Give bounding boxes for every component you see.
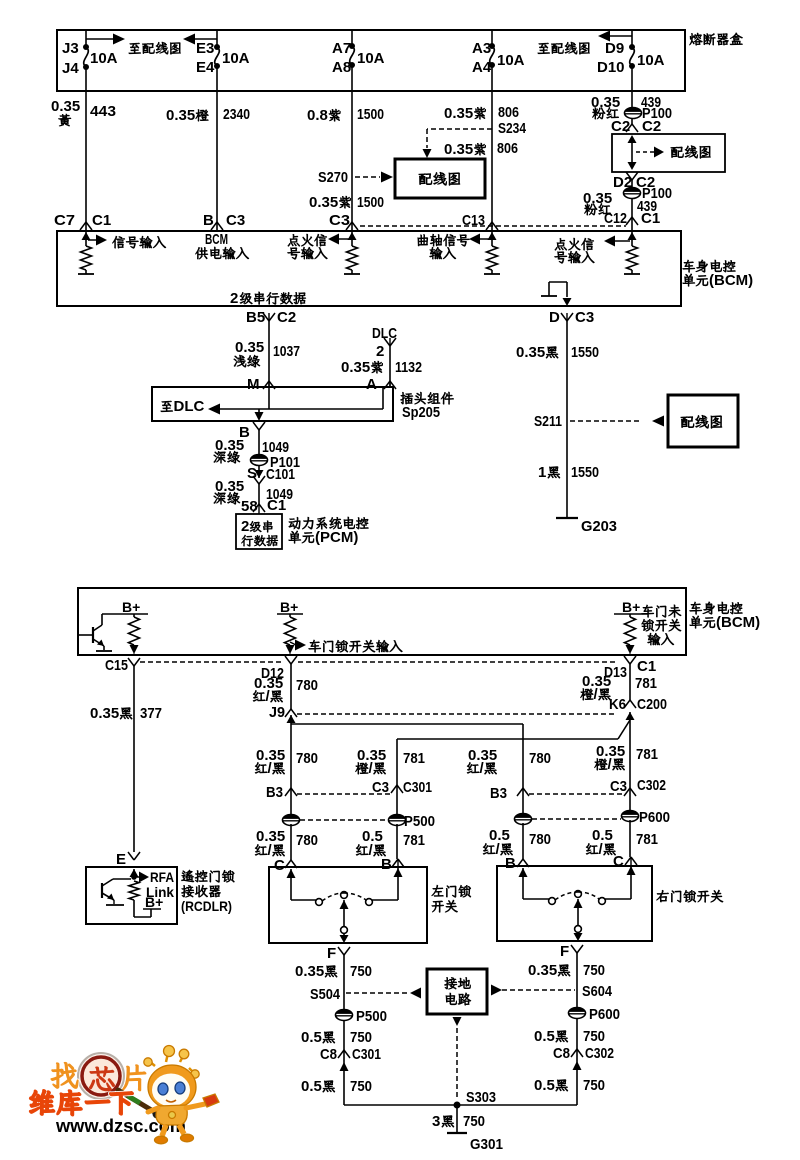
label 车身电控单元(BCM) lower (690, 602, 702, 614)
label 车门未锁开关输入 (642, 605, 654, 617)
svg-text:0.8: 0.8 (307, 107, 328, 124)
wire 377 black (C15 to RCDLR E) (133, 666, 135, 852)
svg-text:1: 1 (538, 464, 546, 481)
svg-text:0.35: 0.35 (516, 344, 545, 361)
svg-text:C3: C3 (610, 778, 627, 795)
wire 1500 purple 0.8 (A8 to BCM C3) (351, 91, 353, 219)
ground G301 (447, 1132, 467, 1134)
svg-text:0.5: 0.5 (301, 1029, 322, 1046)
svg-text:0.35: 0.35 (444, 105, 473, 122)
svg-text:781: 781 (636, 746, 658, 763)
svg-text:C3: C3 (226, 212, 245, 229)
svg-text:F: F (560, 943, 569, 960)
svg-text:A8: A8 (332, 59, 351, 76)
svg-text:(BCM): (BCM) (709, 272, 753, 289)
svg-text:B3: B3 (490, 785, 507, 802)
splice P500 (ground side) (336, 1010, 353, 1021)
svg-text:1132: 1132 (395, 359, 422, 376)
svg-text:750: 750 (583, 1077, 605, 1094)
svg-text:B: B (505, 855, 516, 872)
svg-text:0.35: 0.35 (309, 194, 338, 211)
svg-text:C101: C101 (266, 466, 295, 483)
svg-text:377: 377 (140, 705, 162, 722)
svg-text:P500: P500 (404, 813, 435, 830)
BCM pin arrow + label 点火信号输入 (348, 232, 357, 240)
wire 750 black (left door F to S303) (343, 955, 345, 1105)
svg-text:C7: C7 (54, 212, 75, 229)
fuse J3/J4 10A (85, 30, 87, 47)
svg-text:A4: A4 (472, 59, 492, 76)
svg-text:C2: C2 (642, 118, 661, 135)
svg-text:781: 781 (635, 675, 657, 692)
ground G203 (556, 517, 578, 519)
PCM box 2级串行数据 (236, 514, 282, 549)
svg-text:806: 806 (497, 140, 518, 157)
svg-text:C8: C8 (320, 1046, 337, 1063)
power rail B+ (right) (614, 613, 648, 615)
svg-text:C2: C2 (277, 309, 296, 326)
svg-text:C1: C1 (637, 658, 656, 675)
svg-text:C2: C2 (611, 118, 630, 135)
svg-text:2340: 2340 (223, 106, 250, 123)
label 车身电控单元(BCM) (683, 260, 695, 272)
connector S/C101 (255, 470, 264, 478)
svg-text:D: D (549, 309, 560, 326)
svg-text:S303: S303 (466, 1089, 496, 1106)
BCM pin arrow + label 点火信号输入 (right) (628, 232, 637, 240)
svg-text:B: B (203, 212, 214, 229)
svg-text:(PCM): (PCM) (315, 529, 358, 546)
wire 781 orange/black (D13/C1 to K6/C200) (629, 664, 631, 700)
splice P100 (lower) (631, 188, 633, 212)
svg-text:C301: C301 (403, 779, 432, 796)
svg-text:781: 781 (403, 832, 425, 849)
right door switch arm (574, 899, 583, 908)
splice P101 (251, 455, 268, 466)
BCM pin arrow + label 信号输入 (82, 232, 91, 240)
svg-text:806: 806 (498, 104, 519, 121)
junction S303 (344, 1104, 577, 1106)
svg-text:(BCM): (BCM) (716, 614, 760, 631)
svg-text:3: 3 (432, 1113, 440, 1130)
svg-text:1500: 1500 (357, 194, 384, 211)
svg-text:M: M (247, 376, 260, 393)
pin D13/C1 (624, 656, 630, 664)
svg-text:750: 750 (350, 1078, 372, 1095)
svg-text:10A: 10A (637, 52, 665, 69)
resistor to D13 (629, 614, 631, 617)
label 动力系统电控单元(PCM) (289, 517, 300, 529)
svg-text:E: E (116, 851, 126, 868)
svg-text:0.5: 0.5 (301, 1078, 322, 1095)
splice P500 (wire 781) (389, 815, 406, 826)
dashed splice link left pair (300, 819, 388, 821)
svg-text:B3: B3 (266, 784, 283, 801)
label 遥控门锁接收器(RCDLR) (181, 870, 194, 882)
svg-text:1500: 1500 (357, 106, 384, 123)
svg-text:F: F (327, 945, 336, 962)
svg-text:750: 750 (583, 1028, 605, 1045)
dashed splice link right pair (532, 818, 621, 820)
splice P100 (upper) (625, 108, 642, 119)
svg-text:10A: 10A (357, 50, 385, 67)
branch bus wires (J9/K6 to door lock columns) (291, 723, 523, 725)
splice (left door lock) (283, 815, 300, 826)
splice S604 dashed from ground circuit box (491, 985, 502, 996)
BCM internal resistor (ignition input B) (627, 246, 638, 270)
resistor + arrow 车门锁开关输入 (289, 614, 291, 617)
left door switch arm (340, 900, 349, 909)
svg-text:B5: B5 (246, 309, 265, 326)
arrow 至配线图 (left) (86, 38, 113, 40)
svg-text:0.35: 0.35 (341, 359, 370, 376)
pin D12 (285, 656, 291, 664)
arrow 至配线图 (right) (538, 43, 550, 54)
dashed arrow down from ground circuit box (453, 1017, 462, 1026)
wire 2340 orange (E4 to BCM B/C3) (216, 91, 218, 219)
svg-text:750: 750 (350, 963, 372, 980)
svg-text:A7: A7 (332, 40, 351, 57)
dashed connector grouping line C15-D13 (140, 661, 284, 663)
svg-text:B: B (381, 856, 392, 873)
svg-text:J9: J9 (269, 704, 285, 721)
svg-text:E3: E3 (196, 40, 214, 57)
fuse D9/D10 10A (631, 30, 633, 47)
wire 780 red/black (D12 to J9) (290, 664, 292, 709)
svg-text:10A: 10A (90, 50, 118, 67)
svg-text:C3: C3 (575, 309, 594, 326)
BCM body control module box (57, 231, 681, 306)
svg-text:Link: Link (146, 884, 174, 900)
svg-text:0.35: 0.35 (235, 339, 264, 356)
svg-text:A3: A3 (472, 40, 491, 57)
label 左门锁开关 (432, 885, 444, 896)
dashed connector grouping line at BCM top (360, 225, 626, 227)
svg-text:0.35: 0.35 (166, 107, 195, 124)
svg-text:C: C (613, 853, 624, 870)
svg-text:G301: G301 (470, 1136, 503, 1153)
svg-text:BCM: BCM (205, 231, 228, 248)
right door switch contacts (519, 868, 528, 877)
svg-text:1550: 1550 (571, 344, 599, 361)
svg-text:781: 781 (636, 831, 658, 848)
svg-text:S211: S211 (534, 413, 562, 430)
svg-text:C302: C302 (637, 777, 666, 794)
svg-text:10A: 10A (222, 50, 250, 67)
svg-text:2: 2 (376, 343, 384, 360)
svg-text:2: 2 (230, 290, 238, 307)
svg-text:C: C (274, 857, 285, 874)
RCDLR transistor Q2 (101, 883, 103, 898)
svg-text:P500: P500 (356, 1008, 387, 1025)
svg-text:C12: C12 (604, 210, 627, 227)
pass-through box to wiring diagram 配线图 (right) (612, 134, 725, 172)
svg-text:C302: C302 (585, 1045, 614, 1062)
svg-text:C3: C3 (329, 212, 350, 229)
splice (right door lock) (515, 814, 532, 825)
BCM pin arrow + label 曲轴信号输入 (488, 232, 497, 240)
svg-text:0.35: 0.35 (51, 98, 80, 115)
svg-text:B+: B+ (280, 599, 298, 615)
left door switch contacts (287, 869, 296, 878)
splice P600 (wire 781 right) (622, 811, 639, 822)
svg-text:K6: K6 (609, 696, 626, 713)
svg-text:J3: J3 (62, 40, 79, 57)
svg-text:S234: S234 (498, 120, 527, 137)
BCM internal resistor (crank input) (487, 246, 498, 270)
svg-text:P600: P600 (589, 1006, 620, 1023)
svg-text:S604: S604 (582, 983, 613, 1000)
wire 806 purple (A4 to BCM C13) (491, 91, 493, 219)
svg-text:750: 750 (463, 1113, 485, 1130)
svg-text:C15: C15 (105, 657, 128, 674)
dashed connector grouping line J9-C200 (297, 713, 617, 715)
fuse A3/A4 10A (491, 30, 493, 46)
power rail B+ (left) (102, 613, 148, 615)
svg-text:C8: C8 (553, 1045, 570, 1062)
fuse A7/A8 10A (351, 30, 353, 46)
svg-text:D10: D10 (597, 59, 625, 76)
wiring diagram box 配线图 (middle right) (668, 395, 738, 447)
power rail B+ (middle) (277, 613, 303, 615)
svg-text:1037: 1037 (273, 343, 300, 360)
svg-text:C1: C1 (92, 212, 111, 229)
svg-text:C200: C200 (637, 696, 667, 713)
svg-text:B+: B+ (622, 599, 640, 615)
ground circuit box 接地电路 (427, 969, 487, 1014)
svg-text:S504: S504 (310, 986, 341, 1003)
splice pack 插头组件 Sp205 box (152, 387, 393, 421)
svg-text:780: 780 (529, 750, 551, 767)
svg-text:0.35: 0.35 (444, 141, 473, 158)
svg-text:B+: B+ (122, 599, 140, 615)
RCDLR internals (130, 869, 139, 877)
svg-text:0.5: 0.5 (534, 1028, 555, 1045)
BCM internal resistor (signal input) (81, 246, 92, 270)
internal bus with 至DLC arrow (161, 401, 173, 412)
svg-text:0.35: 0.35 (528, 962, 557, 979)
svg-text:J4: J4 (62, 60, 79, 77)
fuse E3/E4 10A (216, 30, 218, 47)
svg-text:S270: S270 (318, 169, 348, 186)
watermark logo 找芯片/维库一下/www.dzsc.com with mascot (30, 1046, 219, 1144)
svg-text:RFA: RFA (150, 869, 174, 885)
svg-text:G203: G203 (581, 518, 617, 535)
svg-text:750: 750 (350, 1029, 372, 1046)
svg-text:443: 443 (90, 103, 116, 120)
left door lock switch box (269, 867, 427, 943)
svg-text:780: 780 (296, 750, 318, 767)
svg-text:A: A (366, 376, 377, 393)
arrow into K6 and branch bus (626, 712, 635, 720)
svg-text:58: 58 (241, 498, 258, 515)
svg-text:0.5: 0.5 (534, 1077, 555, 1094)
svg-text:2: 2 (241, 518, 249, 535)
wiring diagram box 配线图 (upper) (395, 159, 485, 198)
fuse box 熔断器盒 (57, 30, 685, 91)
svg-text:750: 750 (583, 962, 605, 979)
svg-text:(RCDLR): (RCDLR) (181, 898, 232, 914)
svg-text:D9: D9 (605, 40, 624, 57)
svg-text:780: 780 (296, 832, 318, 849)
wire to ground G301 (456, 1105, 458, 1132)
svg-text:Sp205: Sp205 (402, 404, 440, 421)
right door lock switch box (497, 866, 652, 941)
pin B branch with down arrow (258, 409, 260, 412)
BCM box lower (door lock inputs) (78, 588, 686, 655)
label 熔断器盒 (689, 33, 702, 45)
svg-text:1550: 1550 (571, 464, 599, 481)
arrow into J9 (287, 715, 296, 723)
wire 750 black (right door F to S303) (576, 953, 578, 1105)
svg-text:780: 780 (529, 831, 551, 848)
transistor Q1 in BCM (79, 634, 93, 636)
wire 443 yellow (J4 to BCM C7/C1) (85, 91, 87, 219)
svg-text:10A: 10A (497, 52, 525, 69)
svg-text:C301: C301 (352, 1046, 381, 1063)
BCM internal resistor (ignition input A) (347, 246, 358, 270)
svg-text:E4: E4 (196, 59, 215, 76)
label 右门锁开关 (657, 890, 669, 902)
svg-text:0.35: 0.35 (295, 963, 324, 980)
svg-text:C1: C1 (641, 210, 660, 227)
resistor from B+ to C15 (133, 614, 135, 617)
svg-text:P600: P600 (639, 809, 670, 826)
wire 439 pink (D10 to BCM C12/C1) (631, 91, 633, 111)
svg-text:780: 780 (296, 677, 318, 694)
BCM internal hook symbol (serial data driver) (548, 282, 550, 296)
svg-text:781: 781 (403, 750, 425, 767)
svg-text:DLC: DLC (174, 398, 205, 415)
svg-text:0.35: 0.35 (90, 705, 119, 722)
splice P600 (ground side) (569, 1008, 586, 1019)
dashed grouping B3-C301 and B3-C302 (297, 793, 391, 795)
svg-text:C1: C1 (267, 497, 286, 514)
RCDLR receiver box (86, 867, 177, 924)
